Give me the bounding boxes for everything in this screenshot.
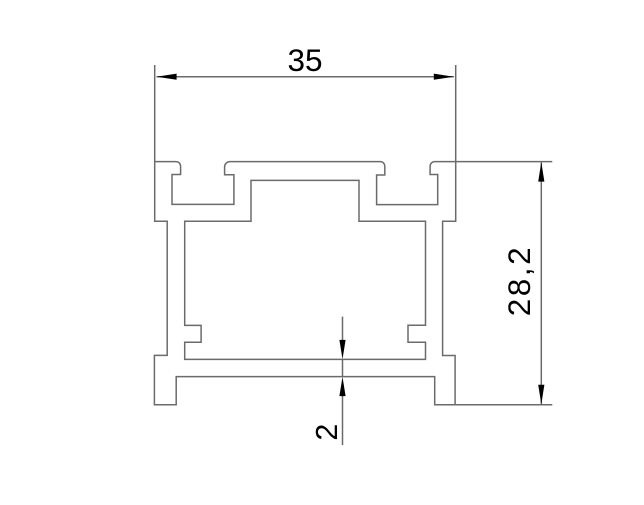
dimension 28,2: bottom arrowhead	[538, 385, 544, 405]
dimension 35: dimension line	[157, 76, 454, 78]
inner cavity outline	[185, 180, 426, 359]
dimension 28,2: dimension line	[540, 163, 542, 405]
svg-text:35: 35	[287, 42, 322, 78]
dimension 28,2: bottom extension line	[455, 404, 552, 406]
dimension 28,2: top arrowhead	[538, 162, 544, 182]
dimension 2: upper arrowhead	[339, 340, 345, 359]
svg-text:2: 2	[310, 424, 344, 441]
dimension 35: right arrowhead	[434, 74, 454, 80]
svg-text:28,2: 28,2	[501, 247, 537, 316]
dimension 35: left arrowhead	[157, 74, 177, 80]
profile outer outline	[154, 162, 455, 405]
dimension 28,2: top extension line	[456, 161, 553, 163]
dimension 35: right extension line	[455, 65, 457, 162]
dimension 2: upper leader line	[342, 317, 344, 341]
dimension 35: left extension line	[154, 65, 156, 162]
dimension 2: lower arrowhead	[339, 377, 345, 396]
dimension 2: lower leader line	[342, 396, 344, 446]
dimension 2: crossing line segment	[342, 359, 344, 377]
